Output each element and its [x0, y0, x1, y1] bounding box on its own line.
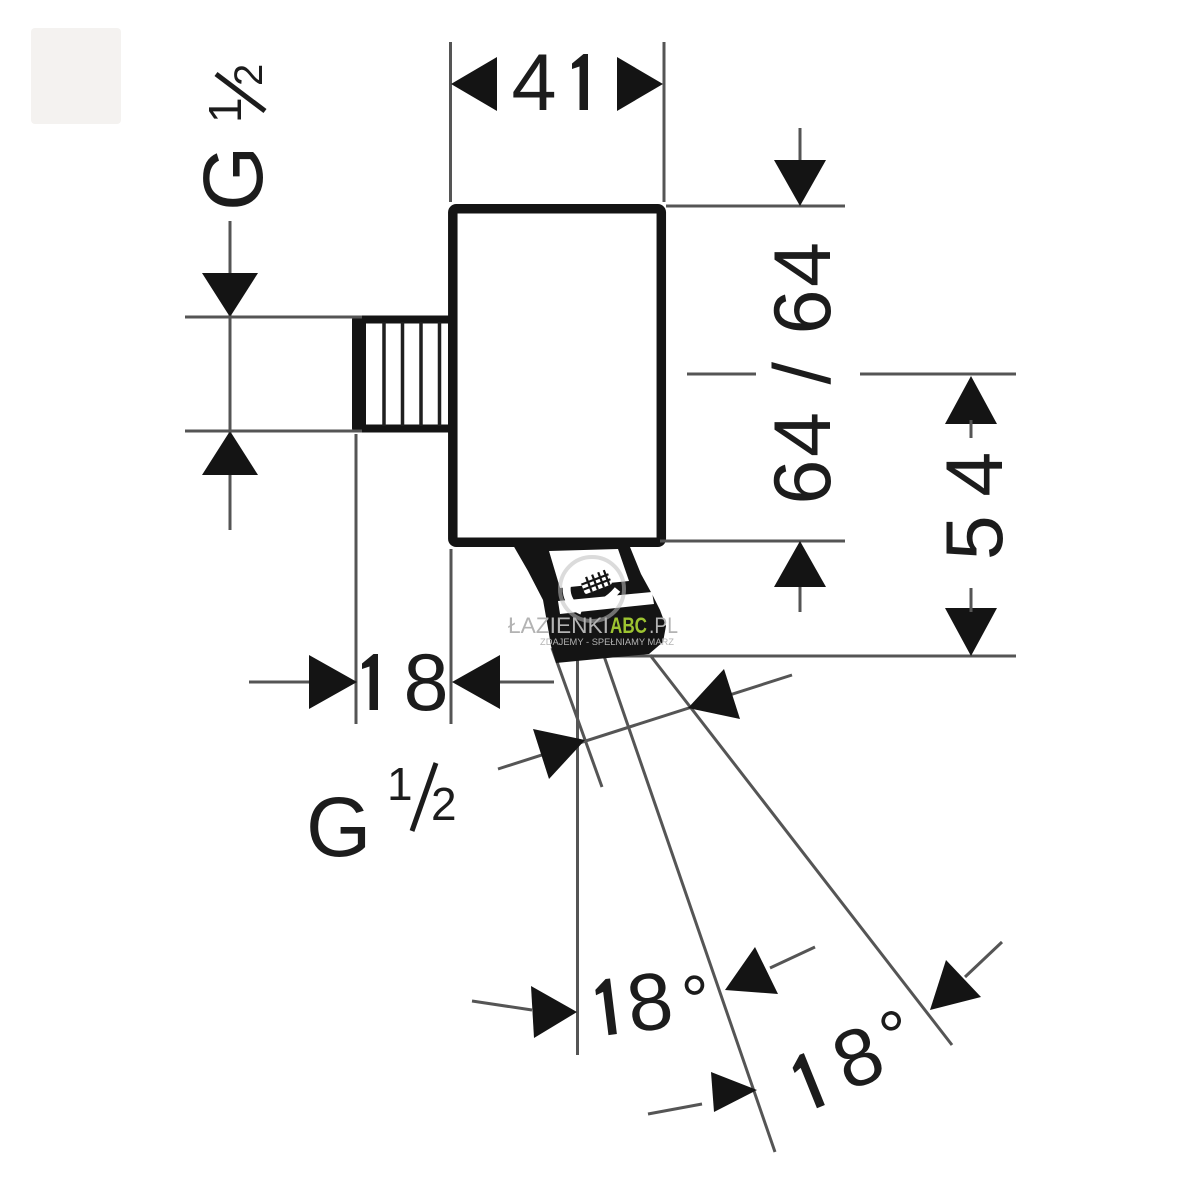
perpendicular dim right arrow	[688, 669, 740, 719]
dim 18: left extension line	[355, 434, 358, 724]
vertical reference line	[576, 652, 579, 1055]
dim 18: right tail and arrow	[452, 655, 554, 709]
dim 41: value label	[511, 38, 588, 128]
dim 64/64: top arrow with stem	[774, 128, 826, 206]
watermark logo circle	[560, 557, 624, 621]
svg-text:4: 4	[511, 38, 556, 128]
perpendicular G1/2 dim line	[498, 675, 792, 769]
stub thread line 1	[382, 322, 386, 426]
svg-text:ŁAZIENKI: ŁAZIENKI	[508, 613, 609, 638]
outlet left side extension line	[552, 648, 602, 787]
perpendicular dim left arrow	[533, 729, 585, 779]
dim 54: top arrow	[945, 376, 997, 438]
dim 64/64: top extension line	[666, 205, 845, 208]
stub thread line 4	[438, 322, 442, 426]
angle dim 1 label	[592, 951, 715, 1054]
watermark main text	[508, 613, 678, 638]
dim 54: bottom line	[593, 655, 1016, 658]
svg-text:.PL: .PL	[649, 613, 678, 638]
svg-text:8: 8	[403, 638, 448, 728]
svg-text:2: 2	[431, 778, 457, 830]
big G1/2 label	[306, 758, 457, 874]
angle dim 2 right arrow	[930, 942, 1002, 1010]
threaded stub outline	[357, 320, 452, 429]
watermark shower icon	[560, 559, 620, 614]
mid split line left segment	[687, 373, 756, 376]
mid split line right segment	[860, 373, 1016, 376]
dim 41: right arrow	[617, 57, 663, 111]
wall plate body	[453, 209, 662, 543]
faint background blob top-left	[31, 28, 121, 124]
left G1/2 dim line	[229, 221, 232, 530]
dim 64/64: bottom arrow with stem	[774, 541, 826, 612]
left G1/2 bottom arrow	[202, 431, 258, 475]
svg-text:ABC: ABC	[610, 613, 647, 638]
dim 41: right extension line	[663, 42, 666, 202]
side 36deg line	[650, 655, 952, 1045]
angle dim 2 label	[781, 994, 929, 1124]
svg-text:2: 2	[227, 64, 271, 86]
dim 54: bottom arrow	[945, 588, 997, 656]
angle dim 1 left arrow	[472, 986, 577, 1038]
dim 18: value label	[362, 638, 449, 728]
svg-text:ZDAJEMY - SPEŁNIAMY MARZ: ZDAJEMY - SPEŁNIAMY MARZ	[540, 637, 674, 648]
dim 18: right extension line	[450, 549, 453, 724]
angle dim 1 right arrow	[725, 947, 815, 994]
outlet neck interior	[549, 549, 629, 588]
threaded stub left cap	[352, 316, 366, 433]
watermark tagline	[540, 637, 674, 648]
svg-text:1: 1	[199, 97, 251, 123]
stub thread line 3	[419, 322, 423, 426]
dim 41: left arrow	[451, 57, 497, 111]
left G1/2 top arrow	[202, 273, 258, 317]
left G1/2 label (rotated)	[186, 64, 280, 211]
outlet axis 18deg line	[604, 656, 775, 1152]
svg-text:8°: 8°	[820, 994, 929, 1109]
angle dim 2 left arrow	[648, 1072, 757, 1114]
svg-text:1: 1	[387, 758, 413, 810]
svg-text:8°: 8°	[622, 951, 715, 1050]
dim 18: left tail and arrow	[249, 655, 357, 709]
outlet white slit	[558, 592, 654, 614]
dim 64/64: value label	[758, 239, 848, 504]
svg-text:G: G	[306, 780, 371, 874]
dim 54: value label	[930, 454, 1020, 561]
dim 64/64: bottom extension line	[660, 540, 845, 543]
svg-text:5 4: 5 4	[930, 454, 1020, 561]
outlet connector body	[511, 538, 666, 663]
stub top extension line	[185, 316, 362, 319]
dim 41: left extension line	[449, 42, 452, 202]
stub thread line 2	[401, 322, 405, 426]
stub bottom extension line	[185, 430, 362, 433]
svg-text:64 / 64: 64 / 64	[758, 239, 848, 504]
svg-text:G: G	[186, 146, 280, 211]
